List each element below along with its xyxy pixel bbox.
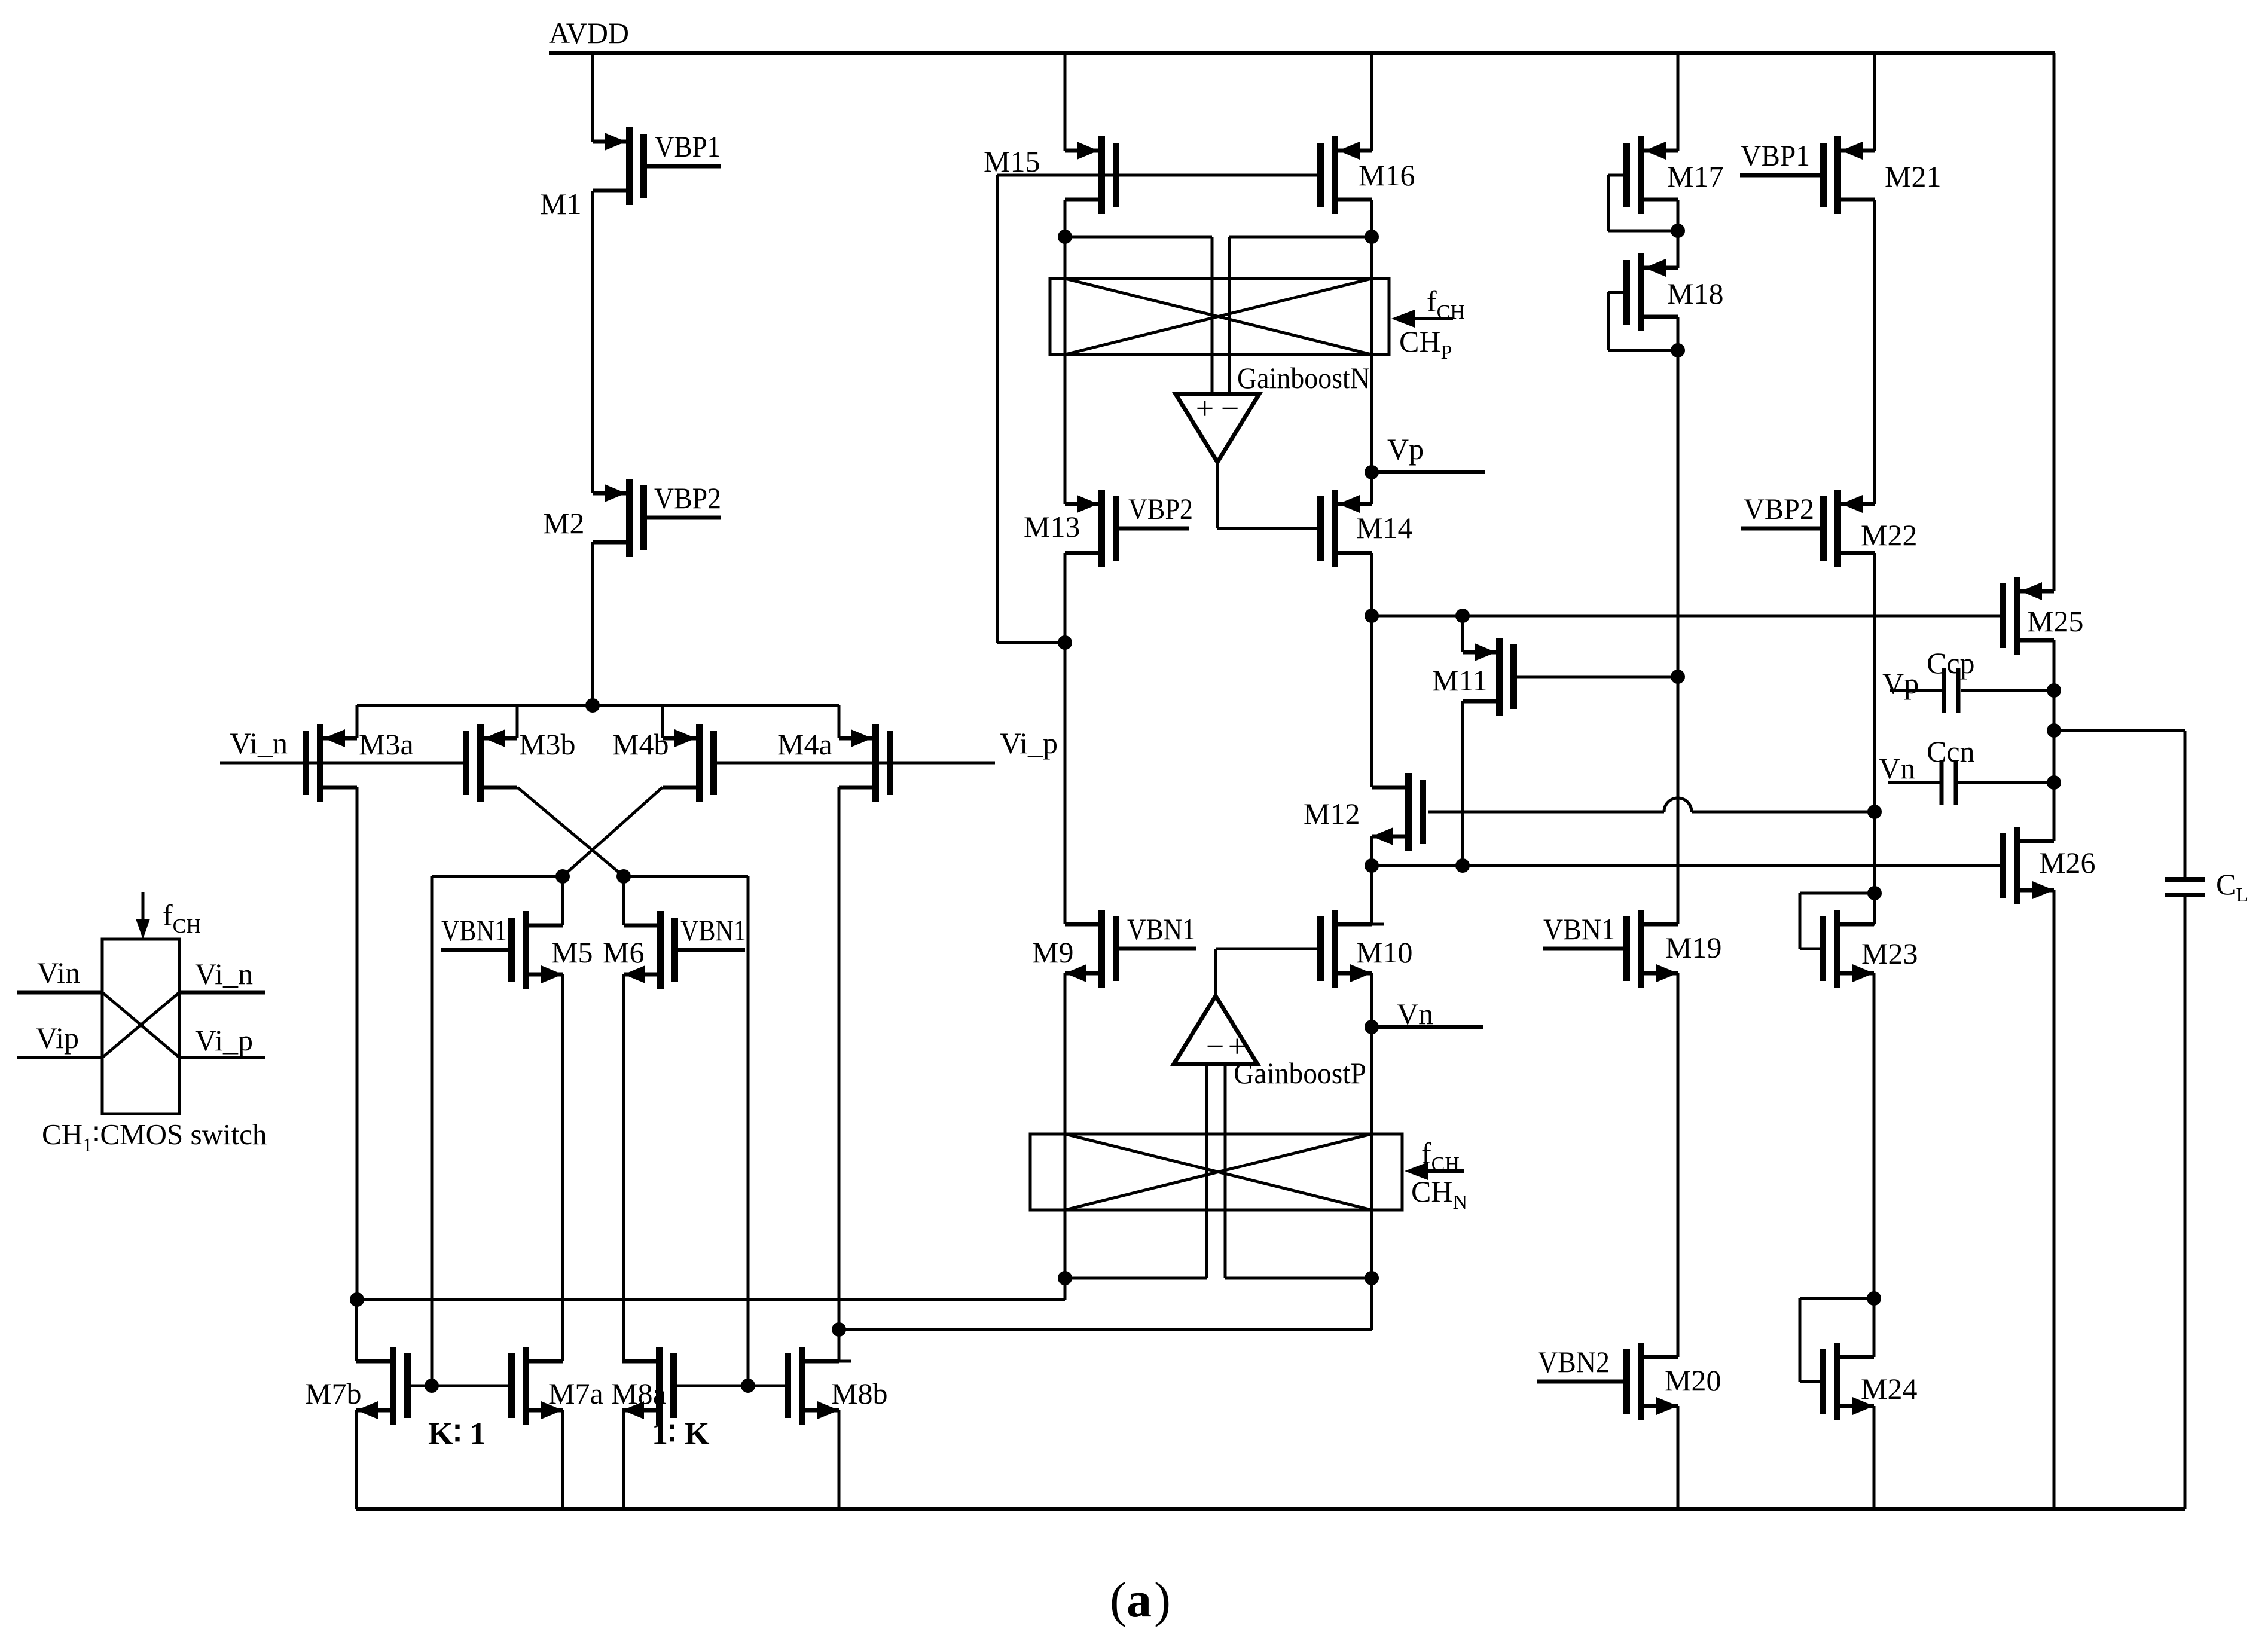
- wire M8b drain to right sense node: [839, 1330, 851, 1361]
- wire AVDD to M15 source: [1065, 53, 1077, 151]
- wire M20 gate lead VBN2: [1537, 1380, 1623, 1384]
- transistor M23 (NMOS): [1820, 910, 1874, 988]
- transistor M22 (PMOS): [1820, 490, 1875, 567]
- wire right node to M8 gates: [747, 876, 750, 1386]
- wire M21 gate lead VBP1: [1740, 173, 1820, 178]
- svg-text:Ccn: Ccn: [1927, 735, 1975, 768]
- svg-text:VBN1: VBN1: [680, 913, 746, 947]
- svg-text:M8a: M8a: [611, 1377, 666, 1410]
- chopper CHN cross: [1065, 1134, 1372, 1210]
- wire M11 drain riser: [1463, 701, 1475, 866]
- svg-text:−: −: [1221, 390, 1239, 426]
- junction M16 drain node: [1365, 230, 1379, 244]
- transistor M13 (PMOS): [1065, 490, 1119, 567]
- wire M7 gate node to M7a gate: [432, 1385, 508, 1387]
- wire M23 gate diode loop: [1800, 893, 1875, 949]
- wire right sense line: [839, 1328, 1372, 1331]
- wire cross-couple right segment: [624, 875, 748, 878]
- wire Vip into CH1: [17, 1056, 102, 1059]
- junction Vp node: [1365, 465, 1379, 479]
- wire M7a source to ground rail: [561, 1410, 564, 1509]
- wire M24 gate diode loop: [1800, 1298, 1874, 1382]
- wire output node to CL column: [2054, 731, 2185, 878]
- wire GainboostN output to M14 gate: [1217, 462, 1317, 528]
- ground rail AVSS: [356, 1507, 2185, 1511]
- svg-text:VBN1: VBN1: [1127, 912, 1195, 946]
- transistor M4b (PMOS): [663, 724, 717, 802]
- junction M11 gate node: [1671, 670, 1685, 684]
- wire M5 gate lead VBN1: [441, 948, 508, 952]
- svg-text:Vp: Vp: [1387, 432, 1424, 466]
- svg-text:M7a: M7a: [548, 1377, 603, 1410]
- wire right node to M6 drain: [624, 876, 636, 925]
- junction tail node: [585, 698, 600, 713]
- transistor M17 (PMOS): [1623, 136, 1678, 214]
- wire GainboostN + input drop: [1211, 237, 1214, 394]
- junction row B left node: [1365, 858, 1379, 873]
- svg-text:(: (: [1110, 1572, 1127, 1628]
- junction M23 diode node: [1867, 886, 1882, 900]
- svg-text:Vi_n: Vi_n: [195, 957, 253, 991]
- transistor M7b (NMOS): [356, 1347, 411, 1425]
- svg-text:Vi_n: Vi_n: [230, 726, 288, 760]
- op-amp GainboostN: [1176, 390, 1259, 462]
- wire M6 gate lead VBN1: [678, 948, 745, 952]
- wire M15 drain node to GainboostN + input: [1065, 236, 1212, 239]
- svg-text:M16: M16: [1359, 158, 1415, 192]
- svg-text:Vi_p: Vi_p: [195, 1023, 253, 1057]
- wire M5 source to M7a drain: [561, 974, 564, 1361]
- wire M17 drain down: [1677, 200, 1680, 268]
- junction M7 gate node: [425, 1379, 439, 1393]
- wire M17 gate diode loop: [1608, 175, 1678, 231]
- CMOS switch CH1 legend box: [102, 939, 179, 1114]
- svg-text:AVDD: AVDD: [549, 16, 629, 50]
- svg-text:Vp: Vp: [1882, 667, 1919, 700]
- svg-text:Vi_p: Vi_p: [1000, 726, 1058, 760]
- junction Ccp node: [2047, 683, 2061, 698]
- junction M17 drain node: [1671, 224, 1685, 238]
- capacitor CL: [2165, 879, 2205, 1509]
- junction left cross node: [555, 869, 570, 884]
- junction left sense node: [350, 1292, 364, 1307]
- transistor M8b (NMOS): [785, 1347, 839, 1425]
- transistor M8a (NMOS): [622, 1347, 677, 1425]
- chopper switch CHN box: [1030, 1134, 1402, 1210]
- junction M12 gate at M22 drain: [1867, 805, 1882, 819]
- clock arrow f_CH into CHP: [1391, 310, 1453, 328]
- svg-text:M22: M22: [1861, 518, 1917, 552]
- wire M10 source down through CHN: [1370, 973, 1373, 1330]
- svg-text:M3a: M3a: [359, 728, 414, 761]
- junction right cross node: [616, 869, 631, 884]
- wire M8a gate to node: [677, 1385, 748, 1387]
- wire M21 drain to M22 source: [1863, 200, 1875, 504]
- wire Vp stub: [1372, 470, 1485, 474]
- svg-text:M25: M25: [2027, 604, 2083, 638]
- wire M18 gate diode loop: [1608, 292, 1678, 350]
- svg-text:M11: M11: [1432, 664, 1488, 697]
- wire M14 source corner: [1360, 503, 1372, 506]
- transistor M18 (PMOS): [1623, 253, 1678, 331]
- transistor M26 (NMOS): [2000, 827, 2054, 904]
- transistor M4a (PMOS): [839, 724, 893, 802]
- wire M4b drain diagonal to left node: [563, 787, 663, 876]
- wire input Vi_p to M4a/M4b gates: [710, 762, 995, 765]
- svg-text:M18: M18: [1667, 277, 1723, 310]
- junction M11 source node: [1455, 609, 1470, 623]
- wire row B down to M10 drain: [1372, 866, 1384, 924]
- chopper switch CHP box: [1050, 279, 1389, 354]
- capacitor Ccn: [1888, 760, 2054, 805]
- wire cross-couple left segment: [432, 875, 563, 878]
- chopper CHP cross: [1065, 279, 1372, 354]
- transistor M16 (PMOS): [1317, 136, 1372, 214]
- wire M11 gate to M17/M18 node: [1517, 676, 1678, 679]
- transistor M5 (NMOS): [508, 911, 563, 989]
- wire AVDD to M21 source: [1863, 53, 1875, 151]
- svg-text:M1: M1: [540, 187, 581, 221]
- wire M19 gate lead VBN1: [1543, 947, 1623, 951]
- wire Vin into CH1: [17, 991, 102, 995]
- junction output node: [2047, 723, 2061, 738]
- wire M8 gate node to M8b gate: [748, 1385, 785, 1387]
- junction row B M11 drain node: [1455, 858, 1470, 873]
- wire M26 drain corner: [2042, 840, 2054, 843]
- svg-text:M19: M19: [1665, 931, 1721, 964]
- wire M13 source corner: [1065, 503, 1077, 506]
- wire AVDD to M16 source: [1360, 53, 1372, 151]
- wire M4a drain down: [838, 787, 841, 1330]
- svg-text:GainboostP: GainboostP: [1234, 1056, 1366, 1090]
- wire M1 drain to M2 source: [593, 191, 605, 493]
- wire M18 drain down to M19: [1666, 317, 1678, 924]
- transistor M15 (PMOS): [1065, 136, 1119, 214]
- wire row A to M25 gate: [1372, 615, 2000, 618]
- wire M1 gate lead VBP1: [647, 164, 721, 169]
- wire M7b drain from left sense node: [356, 1300, 368, 1361]
- wire M15 gate node down to M13 drain: [997, 175, 1065, 643]
- capacitor Ccp: [1890, 668, 2054, 713]
- wire M3b drain diagonal to right node: [517, 787, 624, 876]
- svg-text:M20: M20: [1665, 1364, 1721, 1397]
- svg-text:GainboostN: GainboostN: [1237, 361, 1370, 395]
- wire GainboostP - input drop: [1205, 1064, 1208, 1278]
- junction M8 gate node: [741, 1379, 755, 1393]
- wire GainboostN - input drop: [1228, 237, 1231, 394]
- svg-text:−: −: [1206, 1028, 1224, 1064]
- transistor M14 (PMOS): [1317, 490, 1372, 567]
- clock arrow f_CH into CH1: [136, 892, 150, 939]
- wire Vi_n out of CH1: [179, 991, 265, 995]
- op-amp GainboostP: [1174, 996, 1257, 1064]
- svg-text:Vip: Vip: [36, 1021, 79, 1055]
- svg-text:+: +: [1196, 390, 1214, 426]
- wire left sense line to M9 source: [357, 1298, 1065, 1301]
- junction M24 diode node: [1867, 1291, 1881, 1306]
- svg-text:Ccp: Ccp: [1927, 646, 1975, 680]
- svg-text:VBP1: VBP1: [1741, 139, 1810, 172]
- wire AVDD to M17 source: [1666, 53, 1678, 151]
- svg-text:M14: M14: [1356, 511, 1412, 545]
- svg-text:Vn: Vn: [1879, 751, 1915, 785]
- wire M19 source down to M20: [1666, 973, 1678, 1357]
- junction M15 drain node: [1058, 230, 1072, 244]
- svg-text:CH1∶CMOS switch: CH1∶CMOS switch: [42, 1118, 267, 1156]
- transistor M3a (PMOS): [303, 724, 357, 802]
- transistor M24 (NMOS): [1820, 1343, 1874, 1420]
- svg-text:M9: M9: [1032, 936, 1073, 969]
- svg-text:M6: M6: [603, 936, 644, 969]
- wire tail to M4b source: [661, 705, 664, 738]
- transistor M19 (NMOS): [1623, 910, 1678, 988]
- transistor M12 (NMOS): [1372, 773, 1426, 851]
- wire M18 source corner: [1666, 267, 1678, 270]
- svg-text:1∶ K: 1∶ K: [652, 1416, 710, 1451]
- wire chopper node to GainboostP - input: [1065, 1277, 1207, 1280]
- svg-text:M3b: M3b: [519, 728, 575, 761]
- wire M13 drain down to M9: [1065, 553, 1077, 924]
- svg-text:M15: M15: [984, 145, 1040, 178]
- svg-text:a: a: [1127, 1572, 1152, 1628]
- wire M16 drain down: [1370, 200, 1373, 237]
- svg-text:VBP2: VBP2: [1744, 492, 1814, 525]
- svg-text:M4b: M4b: [612, 728, 669, 761]
- svg-text:M5: M5: [551, 936, 593, 969]
- svg-text:M8b: M8b: [831, 1377, 887, 1410]
- wire M7b gate to node: [411, 1385, 432, 1387]
- svg-text:M10: M10: [1356, 936, 1412, 969]
- transistor M7a (NMOS): [508, 1347, 563, 1425]
- svg-text:VBN1: VBN1: [441, 913, 507, 947]
- svg-text:M4a: M4a: [777, 728, 832, 761]
- CMOS switch CH1 cross: [102, 992, 179, 1058]
- wire tail to M4a source: [838, 705, 841, 738]
- svg-text:M21: M21: [1885, 160, 1941, 193]
- wire tail to M3b source: [516, 705, 519, 738]
- wire chopper node to GainboostP + input: [1225, 1277, 1372, 1280]
- svg-text:K∶ 1: K∶ 1: [428, 1416, 486, 1451]
- junction Vn node: [1365, 1020, 1379, 1034]
- svg-text:M7b: M7b: [305, 1377, 361, 1410]
- svg-text:M26: M26: [2039, 846, 2095, 879]
- transistor M10 (NMOS): [1317, 910, 1372, 988]
- wire M26 source to ground: [2053, 890, 2056, 1509]
- svg-text:VBN2: VBN2: [1538, 1345, 1610, 1379]
- wire left node to M7 gates: [431, 876, 434, 1386]
- wire M2 drain to tail node: [591, 542, 594, 705]
- wire M15 drain down: [1064, 200, 1067, 237]
- power rail AVDD: [549, 51, 2055, 55]
- wire tail to M3a source: [356, 705, 359, 738]
- junction M18 drain node: [1671, 343, 1685, 357]
- svg-text:M12: M12: [1304, 797, 1360, 830]
- wire M22 drain down to M23: [1863, 553, 1875, 924]
- wire Vi_p out of CH1: [179, 1056, 265, 1059]
- clock arrow f_CH into CHN: [1405, 1162, 1464, 1180]
- wire M9 gate lead VBN1: [1119, 947, 1196, 951]
- junction right sense node: [832, 1322, 846, 1337]
- svg-text:M24: M24: [1861, 1372, 1917, 1405]
- wire GainboostP + input drop: [1224, 1064, 1227, 1278]
- wire M16 drain through chopper to M14 source: [1370, 237, 1373, 504]
- transistor M9 (NMOS): [1065, 910, 1119, 988]
- transistor M11 (PMOS): [1463, 638, 1517, 716]
- wire Vn stub: [1372, 1025, 1483, 1029]
- svg-text:VBN1: VBN1: [1543, 912, 1615, 946]
- svg-text:M17: M17: [1667, 160, 1723, 193]
- wire M15/M16 gate line: [997, 174, 1317, 177]
- transistor M3b (PMOS): [463, 724, 517, 802]
- junction M13 drain / M15 gate node: [1058, 635, 1072, 650]
- wire M3a drain down: [356, 787, 359, 1300]
- wire M12 source to row B: [1370, 836, 1373, 866]
- svg-text:): ): [1154, 1572, 1171, 1628]
- wire input Vi_n to M3a/M3b gates: [220, 762, 463, 765]
- node tail rail: [357, 704, 839, 707]
- transistor M2 (PMOS): [593, 479, 647, 557]
- junction row A left node: [1365, 609, 1379, 623]
- wire M24 source to ground: [1873, 1406, 1876, 1509]
- wire M25 drain down: [2053, 640, 2056, 841]
- wire M8b source to ground rail: [838, 1410, 841, 1509]
- wire AVDD right corner to M25 source: [2042, 53, 2054, 591]
- wire M13 gate lead VBP2: [1119, 527, 1189, 531]
- svg-text:M13: M13: [1024, 510, 1080, 543]
- wire M23 source down to M24: [1873, 973, 1876, 1357]
- wire M6 source to M8a drain: [622, 974, 625, 1361]
- svg-text:VBP1: VBP1: [655, 130, 721, 163]
- wire M14 drain down to row A: [1370, 553, 1373, 616]
- svg-text:Vin: Vin: [37, 956, 80, 989]
- svg-text:M23: M23: [1861, 937, 1918, 970]
- wire M12 gate line with hop to M22 drain: [1428, 798, 1875, 812]
- wire M11 source riser: [1463, 616, 1475, 652]
- transistor M6 (NMOS): [624, 911, 678, 989]
- wire GainboostP output to M10 gate: [1216, 949, 1317, 996]
- junction M9 source chopper node: [1058, 1271, 1072, 1285]
- wire M9 source down through CHN: [1064, 973, 1067, 1300]
- wire M22 gate lead VBP2: [1741, 527, 1820, 531]
- wire M14 drain to M12 drain: [1372, 616, 1384, 787]
- transistor M21 (PMOS): [1820, 136, 1875, 214]
- junction Ccn node: [2047, 775, 2061, 790]
- junction M10 source chopper node: [1365, 1271, 1379, 1285]
- wire AVDD to M1 source: [593, 53, 605, 142]
- wire M16 drain node to GainboostN - input: [1229, 236, 1372, 239]
- transistor M25 (PMOS): [2000, 577, 2054, 655]
- wire M24 drain corner: [1862, 1356, 1874, 1359]
- wire M8a source to ground rail: [622, 1410, 625, 1509]
- wire M2 gate lead VBP2: [647, 516, 721, 520]
- svg-text:VBP2: VBP2: [1128, 492, 1193, 525]
- wire M7b source to ground rail: [355, 1410, 358, 1509]
- svg-text:M2: M2: [543, 506, 584, 540]
- svg-text:VBP2: VBP2: [654, 481, 721, 515]
- wire row B to M26 gate: [1372, 864, 2000, 867]
- wire left node to M5 drain: [551, 876, 563, 925]
- transistor M1 (PMOS): [593, 127, 647, 205]
- wire M15 drain through chopper to M13 source: [1064, 237, 1067, 504]
- wire M20 source to ground: [1677, 1406, 1680, 1509]
- transistor M20 (NMOS): [1623, 1343, 1678, 1420]
